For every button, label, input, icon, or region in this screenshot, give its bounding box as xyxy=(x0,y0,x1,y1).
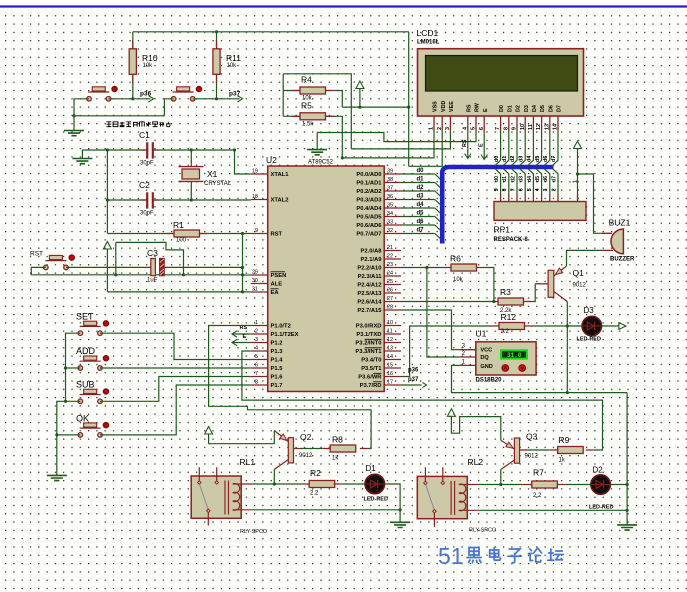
RP1 pin 4 (d5) xyxy=(536,169,542,194)
transistor Q1 9012 xyxy=(548,270,554,297)
svg-text:1: 1 xyxy=(572,180,578,183)
svg-text:7: 7 xyxy=(510,188,516,191)
buzzer BUZ1 xyxy=(611,229,623,254)
svg-text:d5: d5 xyxy=(535,176,541,182)
svg-text:22: 22 xyxy=(387,254,393,260)
svg-text:SUB: SUB xyxy=(76,380,95,390)
LCD pin 5 RW xyxy=(475,116,477,131)
LCD pin 2 VDD xyxy=(441,116,443,131)
svg-text:LED-RED: LED-RED xyxy=(577,337,601,343)
svg-text:d3: d3 xyxy=(417,194,425,200)
temperature sensor U1 DS18B20 xyxy=(476,342,536,375)
svg-text:14: 14 xyxy=(553,124,559,130)
U2 pin 3 P1.2 xyxy=(251,342,268,344)
svg-text:P3.0/RXD: P3.0/RXD xyxy=(356,324,382,330)
svg-text:5: 5 xyxy=(527,188,533,191)
svg-text:DQ: DQ xyxy=(480,355,489,361)
wire buzzer - to Q1 emitter xyxy=(567,250,603,266)
wire d7 from P0.7 to bus xyxy=(401,233,435,235)
svg-text:E: E xyxy=(483,108,489,112)
resistor R9 xyxy=(558,447,584,454)
LED D2 (LED-RED) xyxy=(591,466,610,495)
net label E arrow to P1.2 xyxy=(232,342,251,344)
svg-text:29: 29 xyxy=(252,270,258,276)
U2 pin 1 P1.0/T2 xyxy=(251,325,268,327)
U2 pin 12 P3.2/INT0 xyxy=(384,342,401,344)
U2 pin 32 P0.7/AD7 xyxy=(384,233,401,235)
LCD pin 8 D1 xyxy=(508,116,510,131)
svg-text:3: 3 xyxy=(543,188,549,191)
svg-text:C2: C2 xyxy=(139,180,150,190)
bus P0 data (blue) xyxy=(442,167,553,244)
LED D3 (LED-RED) xyxy=(582,306,601,336)
wire Q3 collector to relay coil xyxy=(500,470,502,485)
ground (LCD) xyxy=(307,150,327,155)
ground (buttons) xyxy=(64,131,84,136)
U1 buttons xyxy=(502,365,509,372)
resistor R2 xyxy=(309,481,335,488)
svg-text:OK: OK xyxy=(76,414,89,424)
svg-text:C1: C1 xyxy=(139,130,150,140)
wire D1 to ground xyxy=(385,484,401,522)
svg-text:12: 12 xyxy=(387,337,393,343)
LCD pin 14 D7 xyxy=(557,116,559,131)
svg-text:RL1: RL1 xyxy=(240,457,256,467)
wire crystal top lead xyxy=(190,150,192,167)
wire LCD D0 to bus xyxy=(495,131,501,166)
svg-text:d5: d5 xyxy=(535,156,541,162)
U2 pin 25 P2.4/A12 xyxy=(384,284,401,286)
wire RL2 coil bottom to ground xyxy=(478,509,627,511)
wire R4 right to R5 right to VEE xyxy=(326,91,335,117)
svg-text:VCC: VCC xyxy=(480,347,492,353)
resistor pack RP1 RESPACK-8 xyxy=(494,202,586,221)
LCD pin 9 D2 xyxy=(516,116,518,131)
U2 pin 7 P1.6 xyxy=(251,376,268,378)
svg-text:39: 39 xyxy=(387,169,393,175)
wire R10 bottom pin to p36 node xyxy=(132,74,134,99)
svg-text:d6: d6 xyxy=(417,219,425,225)
svg-text:d4: d4 xyxy=(417,202,425,208)
top blue border line xyxy=(0,5,687,7)
svg-text:9012: 9012 xyxy=(573,283,587,289)
svg-text:AT89C52: AT89C52 xyxy=(308,160,334,166)
svg-text:9: 9 xyxy=(255,228,258,234)
wire RST net vertical xyxy=(242,234,244,292)
ground (RL1) xyxy=(390,522,410,527)
push button p36 key xyxy=(87,87,117,102)
net label RS arrow to P1.1 xyxy=(232,333,251,335)
svg-text:12: 12 xyxy=(536,124,542,130)
svg-text:6: 6 xyxy=(519,188,525,191)
svg-text:d7: d7 xyxy=(417,228,425,234)
power +5V (Q2) xyxy=(205,427,213,435)
svg-text:26: 26 xyxy=(387,288,393,294)
svg-text:D7: D7 xyxy=(557,105,563,112)
svg-text:R6: R6 xyxy=(450,254,461,264)
power +5V (Q3) xyxy=(447,409,455,417)
svg-text:2.2: 2.2 xyxy=(310,490,319,496)
wire buttons ground bus xyxy=(74,115,164,117)
wire crystal bottom lead xyxy=(190,181,192,200)
svg-text:10k: 10k xyxy=(453,277,464,283)
U2 pin 22 P2.1/A9 xyxy=(384,258,401,260)
svg-text:1: 1 xyxy=(255,320,258,326)
svg-text:1uF: 1uF xyxy=(147,278,158,284)
svg-text:E: E xyxy=(478,143,484,147)
svg-text:Q1: Q1 xyxy=(573,268,585,278)
wire R12 to D3 xyxy=(533,325,583,327)
svg-text:33: 33 xyxy=(387,220,393,226)
svg-text:6: 6 xyxy=(479,127,485,130)
wire d4 from P0.4 to bus xyxy=(401,207,435,209)
svg-text:R12: R12 xyxy=(501,312,517,322)
ground (crystal) xyxy=(72,159,92,164)
wire R5 right to GND xyxy=(334,116,342,158)
U2 pin 9 RST xyxy=(251,233,268,235)
wire EA row xyxy=(107,291,250,293)
svg-text:P1.2: P1.2 xyxy=(271,341,283,347)
wire C3 right lead to RST net xyxy=(171,266,243,268)
wire RST button right pin to C3 xyxy=(66,266,144,268)
wire VCC to Q3 emitter xyxy=(451,416,500,440)
svg-text:d7: d7 xyxy=(551,176,557,182)
RP1 pin 2 (d7) xyxy=(553,169,559,194)
push button ADD xyxy=(76,346,108,370)
svg-text:4: 4 xyxy=(535,188,541,191)
svg-text:2: 2 xyxy=(551,188,557,191)
svg-text:2: 2 xyxy=(255,329,258,335)
wire d3 from P0.3 to bus xyxy=(401,199,435,201)
wire R7 to D2 xyxy=(565,484,591,486)
svg-text:P0.4/AD4: P0.4/AD4 xyxy=(356,206,382,212)
svg-text:d1: d1 xyxy=(502,176,508,182)
U2 pin 21 P2.0/A8 xyxy=(384,250,401,252)
RP1 pin 3 (d6) xyxy=(544,169,550,194)
U1 display 31.0 xyxy=(501,350,527,358)
svg-text:p37: p37 xyxy=(408,377,419,383)
U2 pin 24 P2.3/A11 xyxy=(384,275,401,277)
svg-text:5: 5 xyxy=(471,127,477,130)
svg-text:LM016L: LM016L xyxy=(417,40,440,46)
svg-text:31: 31 xyxy=(252,287,258,293)
svg-text:30: 30 xyxy=(252,278,258,284)
wire R6 right to R3 node xyxy=(485,268,494,302)
svg-text:ADD: ADD xyxy=(76,346,96,356)
svg-text:2: 2 xyxy=(437,127,443,130)
svg-text:P2.2/A10: P2.2/A10 xyxy=(357,266,381,272)
svg-text:RP1: RP1 xyxy=(494,225,511,235)
LCD pin 4 RS xyxy=(467,116,469,131)
svg-text:32: 32 xyxy=(387,228,393,234)
svg-text:4: 4 xyxy=(255,346,258,352)
svg-text:BUZ1: BUZ1 xyxy=(609,218,631,228)
wire button1 right pin to net p36 xyxy=(109,98,151,100)
wire VCC to Q2 emitter xyxy=(209,431,275,444)
svg-text:d1: d1 xyxy=(502,156,508,162)
wire RST button left pin down to EA loop xyxy=(31,267,242,274)
svg-text:30pF: 30pF xyxy=(140,211,154,217)
svg-text:Q2: Q2 xyxy=(300,432,312,442)
wire Q1 base to R3 xyxy=(532,284,536,302)
svg-text:D1: D1 xyxy=(366,464,377,473)
resistor R10 xyxy=(129,49,136,75)
U2 pin 28 P2.7/A15 xyxy=(384,309,401,311)
svg-text:RLY-SPCO: RLY-SPCO xyxy=(240,529,268,535)
wire SET to P1.4 xyxy=(100,333,251,359)
svg-text:9: 9 xyxy=(494,188,500,191)
svg-text:30pF: 30pF xyxy=(140,161,154,167)
wire P1.3 to R9 xyxy=(242,351,603,450)
wire P2.2 to R6 xyxy=(401,267,443,269)
svg-text:8: 8 xyxy=(255,380,258,386)
svg-text:d0: d0 xyxy=(494,156,500,162)
svg-text:PSEN: PSEN xyxy=(271,273,287,279)
push button p37 key xyxy=(171,87,201,102)
svg-text:P2.7/A15: P2.7/A15 xyxy=(357,308,382,314)
resistor R5 xyxy=(300,113,326,120)
svg-text:51: 51 xyxy=(438,543,464,569)
svg-text:18: 18 xyxy=(252,194,258,200)
wire U1 GND to ground xyxy=(452,365,628,392)
svg-text:RESPACK-8: RESPACK-8 xyxy=(494,237,529,243)
wire P2.7 to U1 VCC xyxy=(401,310,460,350)
svg-text:RL2: RL2 xyxy=(468,457,484,467)
U2 pin 26 P2.5/A13 xyxy=(384,292,401,294)
svg-text:P2.0/A8: P2.0/A8 xyxy=(361,249,383,255)
svg-text:R9: R9 xyxy=(559,435,570,445)
svg-text:p36: p36 xyxy=(140,91,152,98)
svg-text:11: 11 xyxy=(387,329,393,335)
svg-text:36: 36 xyxy=(387,194,393,200)
svg-text:p36: p36 xyxy=(408,368,419,374)
svg-text:XTAL1: XTAL1 xyxy=(271,172,290,178)
svg-text:D3: D3 xyxy=(524,105,530,112)
U2 pin 16 P3.6/WR xyxy=(384,376,401,378)
svg-text:11: 11 xyxy=(528,124,534,130)
svg-text:9012: 9012 xyxy=(525,454,539,460)
resistor R7 xyxy=(532,481,558,488)
net label RS (LCD) xyxy=(467,131,469,159)
svg-text:P3.2/INT0: P3.2/INT0 xyxy=(355,341,381,347)
svg-text:Q3: Q3 xyxy=(526,432,538,442)
resistor R1 xyxy=(174,230,200,237)
svg-text:d2: d2 xyxy=(417,185,425,191)
RP1 pin 8 (d1) xyxy=(503,169,509,194)
wire LCD VEE to R4/R5 xyxy=(351,131,450,149)
wire RL2 coil row xyxy=(478,484,524,486)
svg-text:D4: D4 xyxy=(532,105,538,112)
wire DQ from P2.2 xyxy=(427,268,460,358)
svg-text:C3: C3 xyxy=(147,248,158,258)
svg-text:P1.6: P1.6 xyxy=(271,375,284,381)
wire button2 left pin xyxy=(164,99,173,116)
wire R2 to D1 xyxy=(342,483,365,485)
wire D3 right dangling arrow xyxy=(602,325,619,327)
U2 pin 18 XTAL2 xyxy=(251,199,268,201)
wire d6 from P0.6 to bus xyxy=(401,224,435,226)
power +5V (RST) xyxy=(103,242,111,250)
svg-text:R7: R7 xyxy=(533,468,544,478)
svg-text:d3: d3 xyxy=(518,156,524,162)
RP1 pin 6 (d3) xyxy=(520,169,526,194)
resistor R11 xyxy=(213,49,220,75)
svg-text:RST: RST xyxy=(271,232,283,238)
push button SUB xyxy=(76,380,108,404)
svg-text:100: 100 xyxy=(176,238,187,244)
svg-text:RST: RST xyxy=(30,251,43,258)
svg-text:P1.3: P1.3 xyxy=(271,349,284,355)
svg-text:P2.4/A12: P2.4/A12 xyxy=(357,283,381,289)
svg-text:38: 38 xyxy=(387,177,393,183)
svg-text:8: 8 xyxy=(503,127,509,130)
svg-text:LED-RED: LED-RED xyxy=(589,505,613,511)
resistor R3 xyxy=(498,298,524,305)
svg-text:d2: d2 xyxy=(510,156,516,162)
wire LCD D5 to bus xyxy=(536,131,542,166)
svg-text:P0.1/AD1: P0.1/AD1 xyxy=(356,181,382,187)
svg-text:P3.7/RD: P3.7/RD xyxy=(360,383,382,389)
push button OK xyxy=(76,414,108,438)
U2 pin 23 P2.2/A10 xyxy=(384,267,401,269)
wire gnd rail down left of caps xyxy=(106,150,108,234)
svg-text:2.2: 2.2 xyxy=(501,329,510,335)
svg-text:P3.1/TXD: P3.1/TXD xyxy=(356,332,381,338)
resistor R12 xyxy=(499,323,525,330)
U2 pin 6 P1.5 xyxy=(251,367,268,369)
wire LCD D7 to bus xyxy=(553,131,559,166)
wire VCC main drop xyxy=(408,32,410,167)
svg-text:EA: EA xyxy=(271,290,280,296)
wire d1 from P0.1 to bus xyxy=(401,182,435,184)
svg-text:P0.2/AD2: P0.2/AD2 xyxy=(356,189,381,195)
svg-text:27: 27 xyxy=(387,296,393,302)
svg-text:ALE: ALE xyxy=(271,282,283,288)
wire d2 from P0.2 to bus xyxy=(401,190,435,192)
U2 pin 13 P3.3/INT1 xyxy=(384,350,401,352)
svg-text:d0: d0 xyxy=(417,168,425,174)
LCD pin 13 D6 xyxy=(549,116,551,131)
LCD pin 11 D4 xyxy=(532,116,534,131)
svg-text:P0.5/AD5: P0.5/AD5 xyxy=(356,215,382,221)
net label p37 arrow xyxy=(238,96,243,102)
U1 pin 2 xyxy=(460,356,476,358)
U2 pin 34 P0.5/AD5 xyxy=(384,216,401,218)
svg-text:15: 15 xyxy=(387,363,393,369)
wire Q1 collector down xyxy=(566,302,568,393)
U2 pin 29 PSEN xyxy=(251,274,268,276)
svg-text:d5: d5 xyxy=(417,211,425,217)
svg-text:16: 16 xyxy=(387,371,393,377)
ground (C1) xyxy=(81,150,83,158)
svg-text:R5: R5 xyxy=(301,101,312,111)
svg-text:2.2: 2.2 xyxy=(533,493,542,499)
svg-text:P0.0/AD0: P0.0/AD0 xyxy=(356,172,381,178)
transistor Q3 9012 xyxy=(514,438,519,463)
svg-text:d1: d1 xyxy=(417,177,425,183)
svg-text:9: 9 xyxy=(512,127,518,130)
svg-text:E: E xyxy=(243,334,247,340)
svg-text:P2.5/A13: P2.5/A13 xyxy=(357,291,382,297)
U2 pin 39 P0.0/AD0 xyxy=(384,173,401,175)
wire R10 top pin xyxy=(132,32,134,49)
svg-text:R10: R10 xyxy=(142,53,158,63)
U2 pin 27 P2.6/A14 xyxy=(384,301,401,303)
svg-text:RS: RS xyxy=(466,104,472,112)
svg-text:d6: d6 xyxy=(543,176,549,182)
wire ground rail right xyxy=(626,393,628,525)
wire R11 top pin xyxy=(216,32,218,49)
svg-text:1k: 1k xyxy=(559,458,566,464)
svg-text:4: 4 xyxy=(462,127,468,130)
svg-text:R11: R11 xyxy=(226,53,241,63)
wire LCD RW to ground xyxy=(317,131,476,142)
svg-text:RLY-SPCO: RLY-SPCO xyxy=(469,528,497,534)
U2 pin 19 XTAL1 xyxy=(251,173,268,175)
svg-text:17: 17 xyxy=(387,380,393,386)
net label p36 arrow xyxy=(149,96,154,102)
svg-text:P2.6/A14: P2.6/A14 xyxy=(357,300,382,306)
svg-text:R2: R2 xyxy=(310,468,321,478)
wire buzzer + to VCC xyxy=(602,233,613,250)
svg-text:X1: X1 xyxy=(207,169,218,179)
wire OK to P1.7 xyxy=(100,385,251,435)
svg-text:P3.4/T0: P3.4/T0 xyxy=(361,358,381,364)
svg-text:P2.3/A11: P2.3/A11 xyxy=(358,274,383,280)
svg-text:5: 5 xyxy=(255,354,258,360)
wire LCD D4 to bus xyxy=(528,131,534,166)
svg-text:P0.7/AD7: P0.7/AD7 xyxy=(356,232,381,238)
U2 pin 2 P1.1/T2EX xyxy=(251,333,268,335)
wire LCD D1 to bus xyxy=(503,131,509,166)
wire RL1 coil bottom to ground xyxy=(252,509,400,511)
wire PSEN jog xyxy=(243,274,251,276)
wire XTAL1 pin19 xyxy=(235,150,251,174)
RP1 pin 7 (d2) xyxy=(512,169,518,194)
wire buttons left rail to ground xyxy=(66,333,81,401)
RP1 pin 5 (d4) xyxy=(528,169,534,194)
svg-text:21: 21 xyxy=(387,245,393,251)
wire VCC feed line xyxy=(342,106,408,108)
svg-text:P3.6/WR: P3.6/WR xyxy=(358,375,382,381)
wire RL1 coil row xyxy=(252,483,301,485)
U2 pin 15 P3.5/T1 xyxy=(384,367,401,369)
resistor R4 xyxy=(300,87,326,94)
svg-text:24: 24 xyxy=(387,271,393,277)
net label E (LCD) xyxy=(483,131,485,160)
relay RL2 (RLY-SPCO) xyxy=(417,457,497,534)
U2 pin 38 P0.1/AD1 xyxy=(384,182,401,184)
LCD pin 7 D0 xyxy=(500,116,502,131)
svg-text:R8: R8 xyxy=(332,435,343,445)
svg-text:d4: d4 xyxy=(527,176,533,182)
svg-text:d0: d0 xyxy=(494,176,500,182)
U2 pin 10 P3.0/RXD xyxy=(384,325,401,327)
svg-text:9012: 9012 xyxy=(299,453,313,459)
svg-text:1: 1 xyxy=(429,127,435,130)
svg-text:25: 25 xyxy=(387,279,393,285)
svg-text:LCD1: LCD1 xyxy=(417,28,439,38)
wire VCC to R4/R5 xyxy=(283,74,351,149)
svg-text:P1.0/T2: P1.0/T2 xyxy=(271,324,291,330)
svg-text:P2.1/A9: P2.1/A9 xyxy=(361,257,383,263)
svg-text:GND: GND xyxy=(480,364,492,370)
push button SET xyxy=(76,312,108,336)
svg-text:10: 10 xyxy=(387,320,393,326)
resistor R8 xyxy=(330,445,356,452)
wire C2 leads xyxy=(107,199,147,201)
ground (keys) xyxy=(47,475,67,480)
